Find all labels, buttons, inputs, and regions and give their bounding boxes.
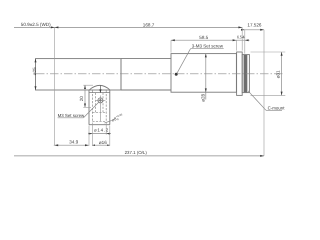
arrow at 168.7 right end — [238, 26, 242, 28]
dimension ⌀28 — [200, 54, 206, 102]
block inner shoulder line — [89, 92, 110, 94]
svg-text:34.9: 34.9 — [69, 140, 78, 145]
svg-text:C-mount: C-mount — [268, 105, 286, 110]
svg-text:237.1 (O/L): 237.1 (O/L) — [125, 150, 148, 155]
svg-text:20: 20 — [79, 96, 84, 102]
dimension line 58.5 / 6.5 / 4 — [171, 39, 250, 41]
dimension ⌀31 — [251, 52, 286, 95]
dimension ⌀25 — [32, 59, 37, 90]
dimension line B 17.526 — [241, 29, 264, 31]
set screw dot on rear tube — [175, 73, 178, 76]
tube mid section outline — [121, 58, 171, 60]
top dimension line A — [14, 26, 242, 28]
set screw circle M3 — [98, 98, 103, 103]
C-mount thread section — [242, 55, 249, 93]
svg-text:17.526: 17.526 — [247, 23, 261, 28]
tube rear section ⌀28 outline — [171, 54, 236, 93]
extension lines for 34.9/⌀16 — [88, 126, 90, 146]
dimension line ⌀16 — [92, 144, 110, 146]
extension line flange left face — [235, 40, 237, 50]
block center arrow — [99, 85, 101, 92]
svg-text:⌀28: ⌀28 — [200, 93, 205, 101]
svg-text:168.7: 168.7 — [143, 22, 155, 27]
block bore hidden lines ⌀8 — [95, 93, 97, 113]
centerline — [36, 73, 284, 75]
flange ⌀31 — [237, 52, 243, 95]
thread dark band — [244, 55, 247, 92]
tube front section ⌀25 outline — [36, 59, 122, 90]
svg-text:58.5: 58.5 — [199, 35, 208, 40]
dimension ⌀14.2 — [88, 123, 111, 146]
mounting block outline — [89, 85, 110, 124]
block bore hidden lines ⌀14.2 — [92, 91, 106, 122]
label ⌀8 +0.05/0 — [111, 113, 125, 123]
extension line at rear tube step — [170, 40, 172, 52]
svg-text:⌀16: ⌀16 — [99, 140, 107, 145]
extension line thread start — [244, 30, 246, 54]
bottom overall dimension line — [14, 155, 264, 157]
tube mid section step — [120, 59, 122, 90]
dimension line 34.9 — [54, 144, 89, 146]
set screw crosshair — [96, 99, 106, 101]
svg-text:⌀25: ⌀25 — [32, 67, 37, 75]
leader for ⌀8 — [105, 120, 112, 123]
extension line flange right face — [241, 27, 243, 50]
image plane extension line — [263, 30, 265, 156]
block dome intersection arc — [89, 85, 109, 89]
svg-text:⌀31: ⌀31 — [276, 70, 281, 78]
svg-text:3-M3 Set screw: 3-M3 Set screw — [192, 43, 224, 48]
leader for M3 set screw — [58, 103, 99, 118]
dimension 20 — [79, 85, 93, 107]
svg-text:⌀14.2: ⌀14.2 — [94, 128, 109, 133]
svg-text:50.9±2.5 (WD): 50.9±2.5 (WD) — [21, 22, 51, 27]
WD reference extension line — [54, 27, 56, 145]
svg-text:M3 Set screw: M3 Set screw — [58, 113, 85, 118]
arrows at WD reference — [51, 26, 55, 28]
leader for C-mount — [248, 91, 282, 111]
thread relief line — [246, 55, 248, 93]
leader for 3-M3 set screw — [177, 49, 224, 73]
